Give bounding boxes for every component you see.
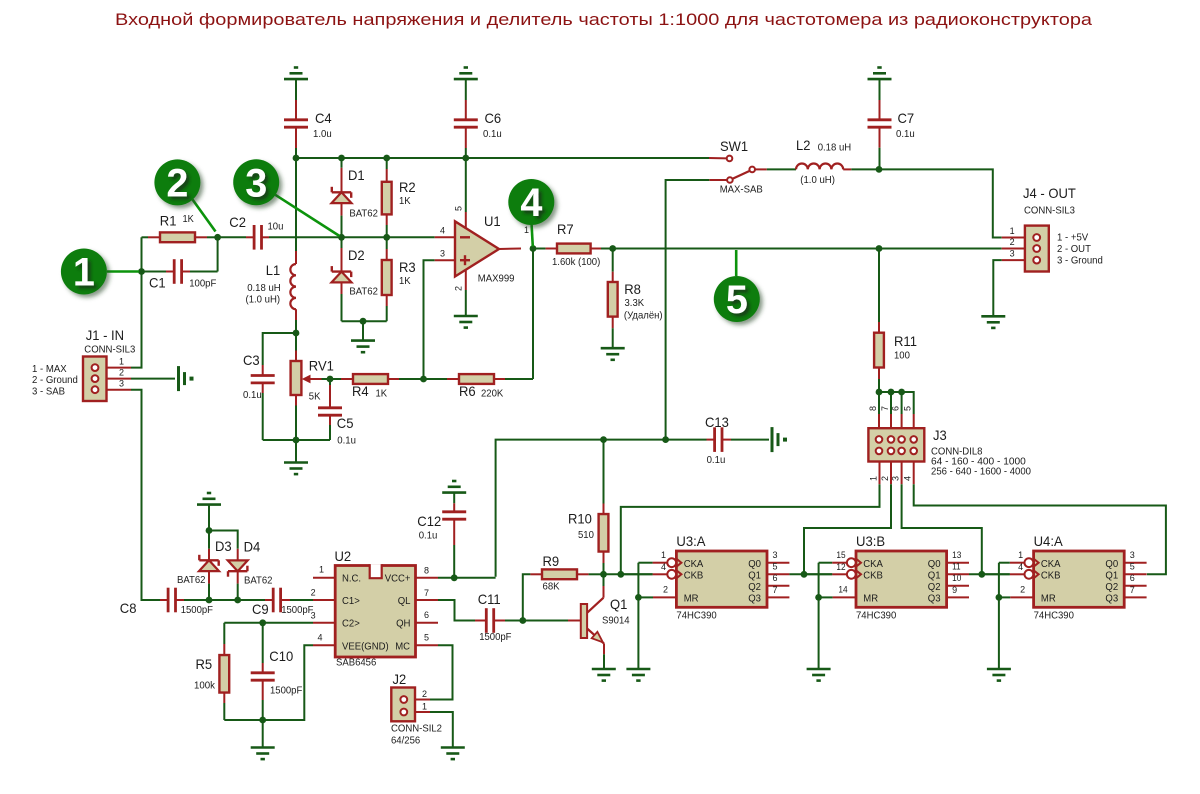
svg-text:1: 1	[661, 550, 666, 560]
terminal glyph at J1 pin2	[177, 366, 180, 391]
svg-text:C2: C2	[229, 214, 246, 230]
wire: C1 right to R1 right vertical	[217, 237, 219, 271]
wire: feedback from R6 right up to U1 output	[532, 249, 534, 380]
svg-text:4: 4	[440, 226, 445, 236]
svg-text:6: 6	[773, 573, 778, 583]
svg-text:10: 10	[952, 573, 961, 583]
svg-text:68K: 68K	[543, 582, 560, 593]
svg-text:1K: 1K	[376, 389, 388, 400]
op-amp comparator U1 MAX999	[455, 221, 499, 276]
node 1 callout circle	[61, 249, 107, 295]
svg-text:1500pF: 1500pF	[270, 686, 302, 697]
svg-text:12: 12	[836, 562, 845, 572]
svg-text:R1: R1	[160, 213, 177, 229]
wire: J1 pin2 to open terminal	[131, 378, 175, 380]
junction D2/R3 ground node	[360, 318, 367, 325]
diode D4 BAT62	[209, 531, 248, 601]
capacitor C5	[318, 379, 342, 440]
junction L1 bottom / C3 / RV1	[293, 330, 300, 337]
wire: top supply rail (C4/D1/R2/C6 to SW1 upper throw)	[296, 157, 709, 159]
svg-text:MR: MR	[684, 594, 699, 605]
svg-text:Q0: Q0	[748, 559, 761, 570]
wire: U3:B MR stub wire	[819, 596, 833, 598]
node 3 callout leader line	[275, 195, 339, 236]
svg-text:7: 7	[424, 588, 429, 598]
svg-text:CKA: CKA	[684, 559, 704, 570]
wire: J3 pin2 to U3:B clock node	[804, 484, 891, 574]
svg-text:MR: MR	[1041, 594, 1056, 605]
svg-text:1: 1	[319, 564, 324, 574]
U3:A MR stub	[653, 596, 676, 598]
svg-text:C12: C12	[417, 513, 441, 529]
svg-text:VCC+: VCC+	[385, 574, 411, 585]
svg-text:64/256: 64/256	[391, 736, 420, 747]
ground below Q1	[592, 668, 616, 671]
svg-text:0.1u: 0.1u	[707, 455, 726, 466]
svg-text:1 - MAX: 1 - MAX	[32, 364, 67, 375]
U1 pin5 supply stub from top rail	[465, 158, 467, 229]
wire: J3 pin4 to U4:A Q1 output	[914, 484, 1166, 574]
ground below U3:A	[626, 668, 650, 671]
diode D3 BAT62	[199, 531, 219, 601]
svg-text:C8: C8	[120, 600, 137, 616]
svg-text:BAT62: BAT62	[349, 287, 378, 298]
svg-text:1500pF: 1500pF	[479, 632, 511, 643]
potentiometer RV1	[291, 333, 330, 440]
wire: U1 output to R7	[533, 248, 546, 250]
svg-text:1: 1	[119, 357, 124, 367]
svg-text:7: 7	[1130, 585, 1135, 595]
svg-text:Q0: Q0	[928, 559, 941, 570]
svg-text:Q0: Q0	[1105, 559, 1118, 570]
svg-text:5: 5	[424, 632, 429, 642]
resistor R5	[219, 623, 229, 720]
svg-text:D2: D2	[348, 247, 365, 263]
capacitor C3	[251, 333, 296, 440]
U4:A Q3 output stub	[1124, 596, 1146, 598]
U3:B Q1 output stub	[947, 573, 969, 575]
wire: J1 pin3 down to C8	[131, 390, 160, 600]
U4:A Q0 output stub	[1124, 562, 1146, 564]
wire: junction up to U1 pin3	[424, 260, 435, 379]
resistor R11	[874, 249, 884, 393]
svg-text:1K: 1K	[399, 276, 411, 287]
U2 pin6 stub (QH) unconnected	[416, 622, 439, 624]
svg-text:L1: L1	[266, 262, 281, 278]
node 4 callout leader line	[532, 225, 533, 247]
svg-text:2 - OUT: 2 - OUT	[1057, 244, 1091, 255]
wire: +5V line to J4 pin1	[879, 169, 1002, 237]
svg-text:14: 14	[838, 584, 847, 594]
wire: R11 bottom to J3 top pins	[879, 392, 914, 414]
wire: clock feed into U3:A CKB	[621, 573, 653, 575]
svg-text:Q1: Q1	[1105, 570, 1118, 581]
svg-text:CKA: CKA	[1041, 559, 1061, 570]
svg-text:C3: C3	[243, 352, 260, 368]
J3 pin5 stub	[913, 414, 915, 428]
svg-text:3: 3	[1010, 249, 1015, 259]
ground (inverted) above C12	[442, 481, 466, 503]
svg-text:CKB: CKB	[684, 570, 704, 581]
svg-text:R5: R5	[196, 656, 213, 672]
IC U3:A 74HC390	[676, 551, 767, 607]
IC U3:B 74HC390	[856, 551, 947, 607]
junction U3:A MR	[635, 594, 642, 601]
resistor R4	[330, 374, 424, 384]
svg-text:(Удалён): (Удалён)	[624, 311, 663, 322]
svg-text:Q2: Q2	[748, 582, 761, 593]
svg-text:100: 100	[894, 351, 910, 362]
junction at C4 / rail	[293, 155, 300, 162]
svg-text:8: 8	[868, 406, 878, 411]
U4:A CKB input bubble and stub	[1010, 570, 1039, 579]
wire: VCC rail (U2 pin8 riser to C13)	[496, 440, 707, 577]
svg-text:1500pF: 1500pF	[181, 605, 213, 616]
junction at C6 / U1 pin5 / rail	[462, 155, 469, 162]
svg-text:J1 - IN: J1 - IN	[86, 327, 124, 343]
junction J3 pin7 column	[888, 389, 895, 396]
svg-text:2: 2	[880, 476, 890, 481]
U3:B Q0 output stub	[947, 562, 969, 564]
diode D2 BAT62	[332, 237, 352, 321]
J3 pin4 stub below	[913, 462, 915, 485]
svg-text:Q3: Q3	[1105, 594, 1118, 605]
svg-text:R9: R9	[543, 553, 560, 569]
svg-text:1 - +5V: 1 - +5V	[1057, 233, 1088, 244]
svg-text:C5: C5	[337, 415, 354, 431]
wire: J4 pin3 to ground	[993, 260, 1001, 316]
svg-text:11: 11	[952, 562, 961, 572]
ground (inverted) above C7	[868, 68, 892, 101]
J3 pin3 stub below	[901, 462, 903, 485]
svg-text:L2: L2	[796, 137, 811, 153]
junction D3 bottom	[206, 597, 213, 604]
U2 pin1 stub (N.C.)	[313, 577, 335, 579]
svg-text:R2: R2	[399, 179, 416, 195]
svg-text:C1: C1	[149, 275, 166, 291]
J3 pin2 stub below	[890, 462, 892, 485]
capacitor C2	[218, 225, 342, 250]
wire: U2 pin7 QL to C11	[438, 600, 475, 621]
wire: clock feed into U4:A CKB	[982, 573, 1010, 575]
junction clock node / J3 pin1 riser	[617, 571, 624, 578]
svg-text:2: 2	[119, 368, 124, 378]
wire: U3:A Q1 to U3:B CKB	[789, 573, 832, 575]
inductor L1	[290, 251, 296, 333]
svg-text:1: 1	[869, 476, 879, 481]
svg-text:J2: J2	[393, 671, 407, 687]
svg-text:N.C.: N.C.	[342, 574, 361, 585]
svg-text:3.3K: 3.3K	[625, 298, 645, 309]
svg-text:100k: 100k	[194, 681, 216, 692]
junction D3/D4 tops	[206, 527, 213, 534]
svg-text:6: 6	[1130, 573, 1135, 583]
svg-text:SAB6456: SAB6456	[336, 658, 376, 669]
svg-text:D3: D3	[215, 538, 232, 554]
svg-text:C4: C4	[315, 110, 332, 126]
svg-text:0.1u: 0.1u	[896, 129, 915, 140]
U2 pin7 stub (QL)	[416, 599, 439, 601]
svg-text:D4: D4	[244, 539, 261, 555]
junction VCC rail / SW1 riser	[662, 436, 669, 443]
svg-text:6: 6	[424, 610, 429, 620]
ground below U1 pin2	[454, 315, 478, 318]
switch SW1 upper throw	[709, 156, 732, 162]
ground below C10	[251, 746, 275, 749]
capacitor C4	[284, 100, 308, 158]
wire: J3 pin1 to U3:A clock node	[621, 484, 880, 574]
U4:A Q1 output stub	[1124, 573, 1146, 575]
wire: U4:A MR to ground	[998, 597, 1000, 669]
svg-text:C6: C6	[485, 110, 502, 126]
resistor R1	[142, 232, 218, 242]
svg-text:C1>: C1>	[342, 596, 360, 607]
svg-text:CONN-SIL3: CONN-SIL3	[1024, 206, 1075, 217]
junction at D1 / rail	[338, 155, 345, 162]
svg-text:3: 3	[119, 379, 124, 389]
svg-text:0.18 uH: 0.18 uH	[247, 283, 281, 294]
wire: clock node to U3:A CKB	[604, 573, 653, 575]
svg-text:1: 1	[422, 702, 427, 712]
svg-text:9: 9	[952, 585, 957, 595]
svg-text:5K: 5K	[309, 392, 321, 403]
wire: U3:B Q1 to U4:A CKB	[969, 573, 1010, 575]
wire: J3 pin8 drop	[878, 392, 880, 414]
svg-text:4: 4	[903, 476, 913, 481]
wire: U3:A MR stub wire	[638, 596, 653, 598]
svg-text:7: 7	[880, 406, 890, 411]
U3:B Q2 output stub	[947, 585, 969, 587]
svg-text:74HC390: 74HC390	[1034, 611, 1074, 622]
connector J1 CONN-SIL3	[83, 357, 131, 402]
junction R1 right / C2 left / node 2	[214, 234, 221, 241]
svg-text:1.0u: 1.0u	[313, 129, 332, 140]
svg-text:4: 4	[1018, 562, 1023, 572]
connector J3 CONN-DIL8	[868, 428, 924, 461]
svg-text:2 - Ground: 2 - Ground	[32, 375, 78, 386]
wire: stem to ground below C10	[262, 720, 264, 748]
svg-text:Q1: Q1	[748, 570, 761, 581]
svg-text:2: 2	[663, 584, 668, 594]
svg-text:BAT62: BAT62	[177, 575, 206, 586]
junction output line / R11	[876, 245, 883, 252]
resistor R2	[382, 158, 392, 237]
svg-text:(1.0 uH): (1.0 uH)	[246, 295, 281, 306]
svg-text:(1.0 uH): (1.0 uH)	[800, 175, 835, 186]
U3:B CKB input bubble and stub	[832, 570, 861, 579]
U2 pin3 stub (C2)	[313, 622, 335, 624]
svg-text:R4: R4	[352, 383, 369, 399]
junction U3:B MR	[815, 594, 822, 601]
svg-text:0.1u: 0.1u	[483, 129, 502, 140]
svg-text:R3: R3	[399, 259, 416, 275]
svg-text:3: 3	[773, 550, 778, 560]
wire: J3 pin6 drop	[901, 392, 903, 414]
svg-text:C13: C13	[705, 414, 729, 430]
U1 output pin1	[499, 248, 521, 251]
svg-text:R11: R11	[894, 333, 917, 349]
junction C10 top / row	[259, 619, 266, 626]
svg-text:D1: D1	[348, 167, 365, 183]
resistor R6	[424, 374, 534, 384]
svg-text:4: 4	[520, 181, 542, 225]
U4:A CKA input bubble and stub	[1010, 558, 1039, 567]
svg-text:J3: J3	[933, 427, 947, 443]
junction bottom rail / ground (C10)	[259, 717, 266, 724]
capacitor C10	[251, 623, 275, 720]
svg-text:U1: U1	[484, 213, 501, 229]
svg-text:3: 3	[245, 161, 267, 205]
svg-text:74HC390: 74HC390	[856, 611, 896, 622]
wire: stem to ground below D2/R3	[362, 321, 364, 340]
svg-text:2: 2	[1020, 584, 1025, 594]
capacitor C13	[707, 427, 770, 452]
svg-text:15: 15	[836, 550, 845, 560]
ground below RV1	[284, 461, 308, 464]
capacitor C11	[475, 608, 523, 633]
svg-text:J4 - OUT: J4 - OUT	[1023, 185, 1076, 201]
svg-text:CKB: CKB	[863, 570, 883, 581]
svg-text:VEE(GND): VEE(GND)	[342, 642, 389, 653]
svg-text:CONN-SIL3: CONN-SIL3	[84, 345, 135, 356]
capacitor C1	[142, 259, 218, 284]
svg-text:1: 1	[1010, 226, 1015, 236]
svg-text:MAX-SAB: MAX-SAB	[720, 185, 763, 196]
svg-text:7: 7	[773, 585, 778, 595]
wire: U3:B MR to ground	[818, 597, 820, 669]
svg-text:2: 2	[1010, 237, 1015, 247]
svg-text:5: 5	[726, 278, 748, 322]
junction R2/R3 column	[383, 234, 390, 241]
svg-text:6: 6	[891, 406, 901, 411]
terminal glyph right of C13	[771, 427, 774, 452]
node 4 callout circle	[508, 179, 554, 225]
svg-text:R10: R10	[568, 511, 592, 527]
junction U4:A MR	[996, 594, 1003, 601]
node 1 callout leader line	[107, 270, 139, 273]
U2 pin4 stub (VEE)	[313, 644, 335, 646]
U4:A Q2 output stub	[1124, 585, 1146, 587]
wire: C3/RV1/C5 bottom rail	[263, 439, 330, 441]
wire: output line to J4 pin2	[613, 248, 1002, 250]
wire: rail down through L1 column (crosses input line, no junction)	[295, 158, 297, 251]
junction VCC rail / R10	[600, 436, 607, 443]
junction J3 pin6 column	[898, 389, 905, 396]
svg-text:1: 1	[73, 251, 95, 295]
wire: U3:A CKA tie to MR (crosses CKB line)	[638, 562, 652, 564]
capacitor C7	[868, 100, 892, 169]
svg-text:C9: C9	[252, 601, 269, 617]
junction U3:B Q1 / J3 pin3 riser	[978, 571, 985, 578]
U2 pin5 stub (MC)	[416, 644, 439, 646]
junction D4 bottom	[234, 597, 241, 604]
junction R9/R10/Q1 collector	[600, 571, 607, 578]
svg-text:QH: QH	[396, 619, 410, 630]
svg-text:CONN-SIL2: CONN-SIL2	[391, 724, 442, 735]
wire: U2 pin8 to VCC riser	[438, 577, 496, 579]
ground below R8	[601, 347, 625, 350]
svg-text:U4:A: U4:A	[1034, 533, 1064, 549]
svg-text:QL: QL	[398, 596, 411, 607]
U2 pin8 stub (VCC+)	[416, 577, 439, 579]
svg-text:R8: R8	[624, 281, 641, 297]
U3:A Q3 output stub	[767, 596, 789, 598]
wire: U2 pin4 VEE to bottom rail	[224, 645, 313, 720]
svg-text:510: 510	[578, 530, 594, 541]
svg-text:256 - 640 - 1600 - 4000: 256 - 640 - 1600 - 4000	[931, 467, 1031, 478]
node 2 callout circle	[154, 159, 200, 205]
svg-text:1500pF: 1500pF	[281, 605, 313, 616]
U3:A Q1 output stub	[767, 573, 789, 575]
junction U3:A Q1 / J3 pin2 riser	[801, 571, 808, 578]
junction D1/D2 column / node 3	[338, 234, 345, 241]
U3:B CKA input bubble and stub	[832, 558, 861, 567]
svg-text:MR: MR	[863, 594, 878, 605]
svg-text:CKB: CKB	[1041, 570, 1061, 581]
ground below U4:A	[987, 668, 1011, 671]
junction at R2 / rail	[383, 155, 390, 162]
wire: signal line D1/D2/R2/R3 to U1 pin4	[342, 236, 435, 238]
junction bottom rail / ground stem	[293, 437, 300, 444]
svg-text:1: 1	[524, 225, 529, 235]
ground below J2	[441, 746, 465, 749]
svg-text:0.1u: 0.1u	[337, 436, 356, 447]
svg-text:3: 3	[1130, 550, 1135, 560]
wire: U3:B CKA tie to MR (crosses CKB line)	[819, 562, 833, 564]
svg-text:C2>: C2>	[342, 619, 360, 630]
wire: SW1 lower throw down to VCC rail	[666, 180, 710, 440]
capacitor C9	[265, 588, 313, 613]
U1 pin4 stub (inverting input)	[435, 236, 455, 238]
J3 pin7 stub	[890, 414, 892, 428]
svg-text:R7: R7	[557, 221, 574, 237]
junction RV1 wiper / R4 / C5	[327, 376, 334, 383]
resistor R9	[523, 569, 604, 620]
svg-text:0.18 uH: 0.18 uH	[818, 143, 852, 154]
ground below J4	[981, 315, 1005, 318]
svg-text:10u: 10u	[268, 222, 284, 233]
wire: U4:A MR stub wire	[999, 596, 1010, 598]
svg-text:1.60k (100): 1.60k (100)	[552, 257, 600, 268]
resistor R8	[608, 249, 618, 349]
resistor R10	[599, 440, 609, 575]
svg-text:13: 13	[952, 550, 961, 560]
svg-text:Входной формирователь напряжен: Входной формирователь напряжения и делит…	[115, 10, 1093, 29]
U3:B MR stub	[833, 596, 856, 598]
ground (inverted) above C4	[284, 68, 308, 101]
svg-text:SW1: SW1	[720, 138, 748, 154]
junction C1 left / node 1	[138, 268, 145, 275]
U3:B Q3 output stub	[947, 596, 969, 598]
svg-text:100pF: 100pF	[189, 279, 216, 290]
wire: J3 pin7 drop	[890, 392, 892, 414]
svg-text:1K: 1K	[183, 214, 195, 225]
wire: stem to ground below RV1	[295, 440, 297, 463]
wire: U2 pin5 MC to J2 pin2	[430, 645, 453, 699]
svg-text:Q1: Q1	[928, 570, 941, 581]
wire: J3 pin3 to U4:A clock node	[902, 484, 982, 574]
svg-text:Q3: Q3	[928, 594, 941, 605]
node 5 callout leader line	[735, 250, 738, 276]
svg-text:CKA: CKA	[863, 559, 883, 570]
svg-text:Q3: Q3	[748, 594, 761, 605]
wire: J2 pin1 to ground	[430, 712, 453, 748]
svg-text:220K: 220K	[481, 389, 503, 400]
U1 pin2 stub to ground	[465, 270, 467, 316]
J3 pin8 stub	[878, 414, 880, 428]
wire: input line R1 left / C1 / J1 pin1 vertical	[131, 237, 142, 367]
IC U4:A 74HC390	[1034, 551, 1125, 607]
